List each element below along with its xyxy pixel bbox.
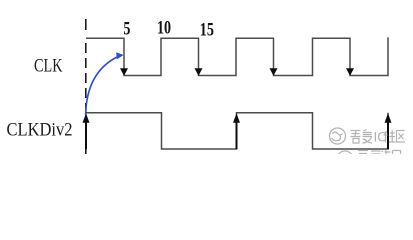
svg-text:15: 15 bbox=[200, 18, 214, 40]
svg-text:CLK: CLK bbox=[34, 55, 62, 76]
signal label CLK bbox=[34, 55, 62, 76]
CLK falling edge arrow at t=5 bbox=[120, 68, 128, 76]
CLK falling edge arrow at t=25 bbox=[270, 68, 278, 76]
watermark row 2 (clipped at bottom edge) bbox=[337, 150, 401, 167]
CLKDiv2 rising edge arrow at t=0 bbox=[83, 113, 90, 149]
watermark text row 1: char 吾 bbox=[351, 131, 361, 144]
watermark text row 1: char 爱 bbox=[363, 130, 373, 144]
tick label 15 bbox=[200, 18, 214, 40]
node t0 start marker: dashed vertical line bbox=[85, 19, 87, 154]
svg-text:10: 10 bbox=[157, 16, 171, 38]
CLKDiv2 rising edge arrow at t=20 bbox=[233, 113, 240, 149]
CLKDiv2 rising edge arrow at t=40 bbox=[385, 113, 392, 149]
CLK falling edge arrow at t=15 bbox=[195, 68, 203, 76]
wire CLKDiv2 waveform bbox=[86, 113, 388, 149]
tick label 5 bbox=[123, 17, 130, 39]
wire CLK waveform bbox=[86, 37, 388, 75]
CLK falling edge arrow at t=35 bbox=[346, 68, 354, 76]
tick label 10 bbox=[157, 16, 171, 38]
svg-text:CLKDiv2: CLKDiv2 bbox=[7, 119, 73, 140]
signal label CLKDiv2 bbox=[7, 119, 73, 140]
svg-text:5: 5 bbox=[123, 17, 130, 39]
watermark text row 1: char 区 bbox=[397, 131, 406, 143]
blue causality arrow from CLKDiv2 rise to CLK fall bbox=[86, 52, 124, 115]
watermark text row 1: char 社 bbox=[384, 131, 396, 143]
watermark logo circle bbox=[330, 128, 346, 144]
watermark text row 1: IC bbox=[374, 130, 388, 145]
